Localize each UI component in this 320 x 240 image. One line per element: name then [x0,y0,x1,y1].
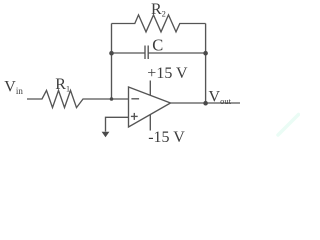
svg-text:R1: R1 [55,76,70,93]
svg-text:+15 V: +15 V [147,65,188,82]
svg-text:-15 V: -15 V [148,129,185,146]
svg-text:Vout: Vout [209,89,232,106]
svg-text:R2: R2 [151,1,166,18]
svg-text:Vin: Vin [4,79,23,96]
svg-text:C: C [152,36,163,55]
